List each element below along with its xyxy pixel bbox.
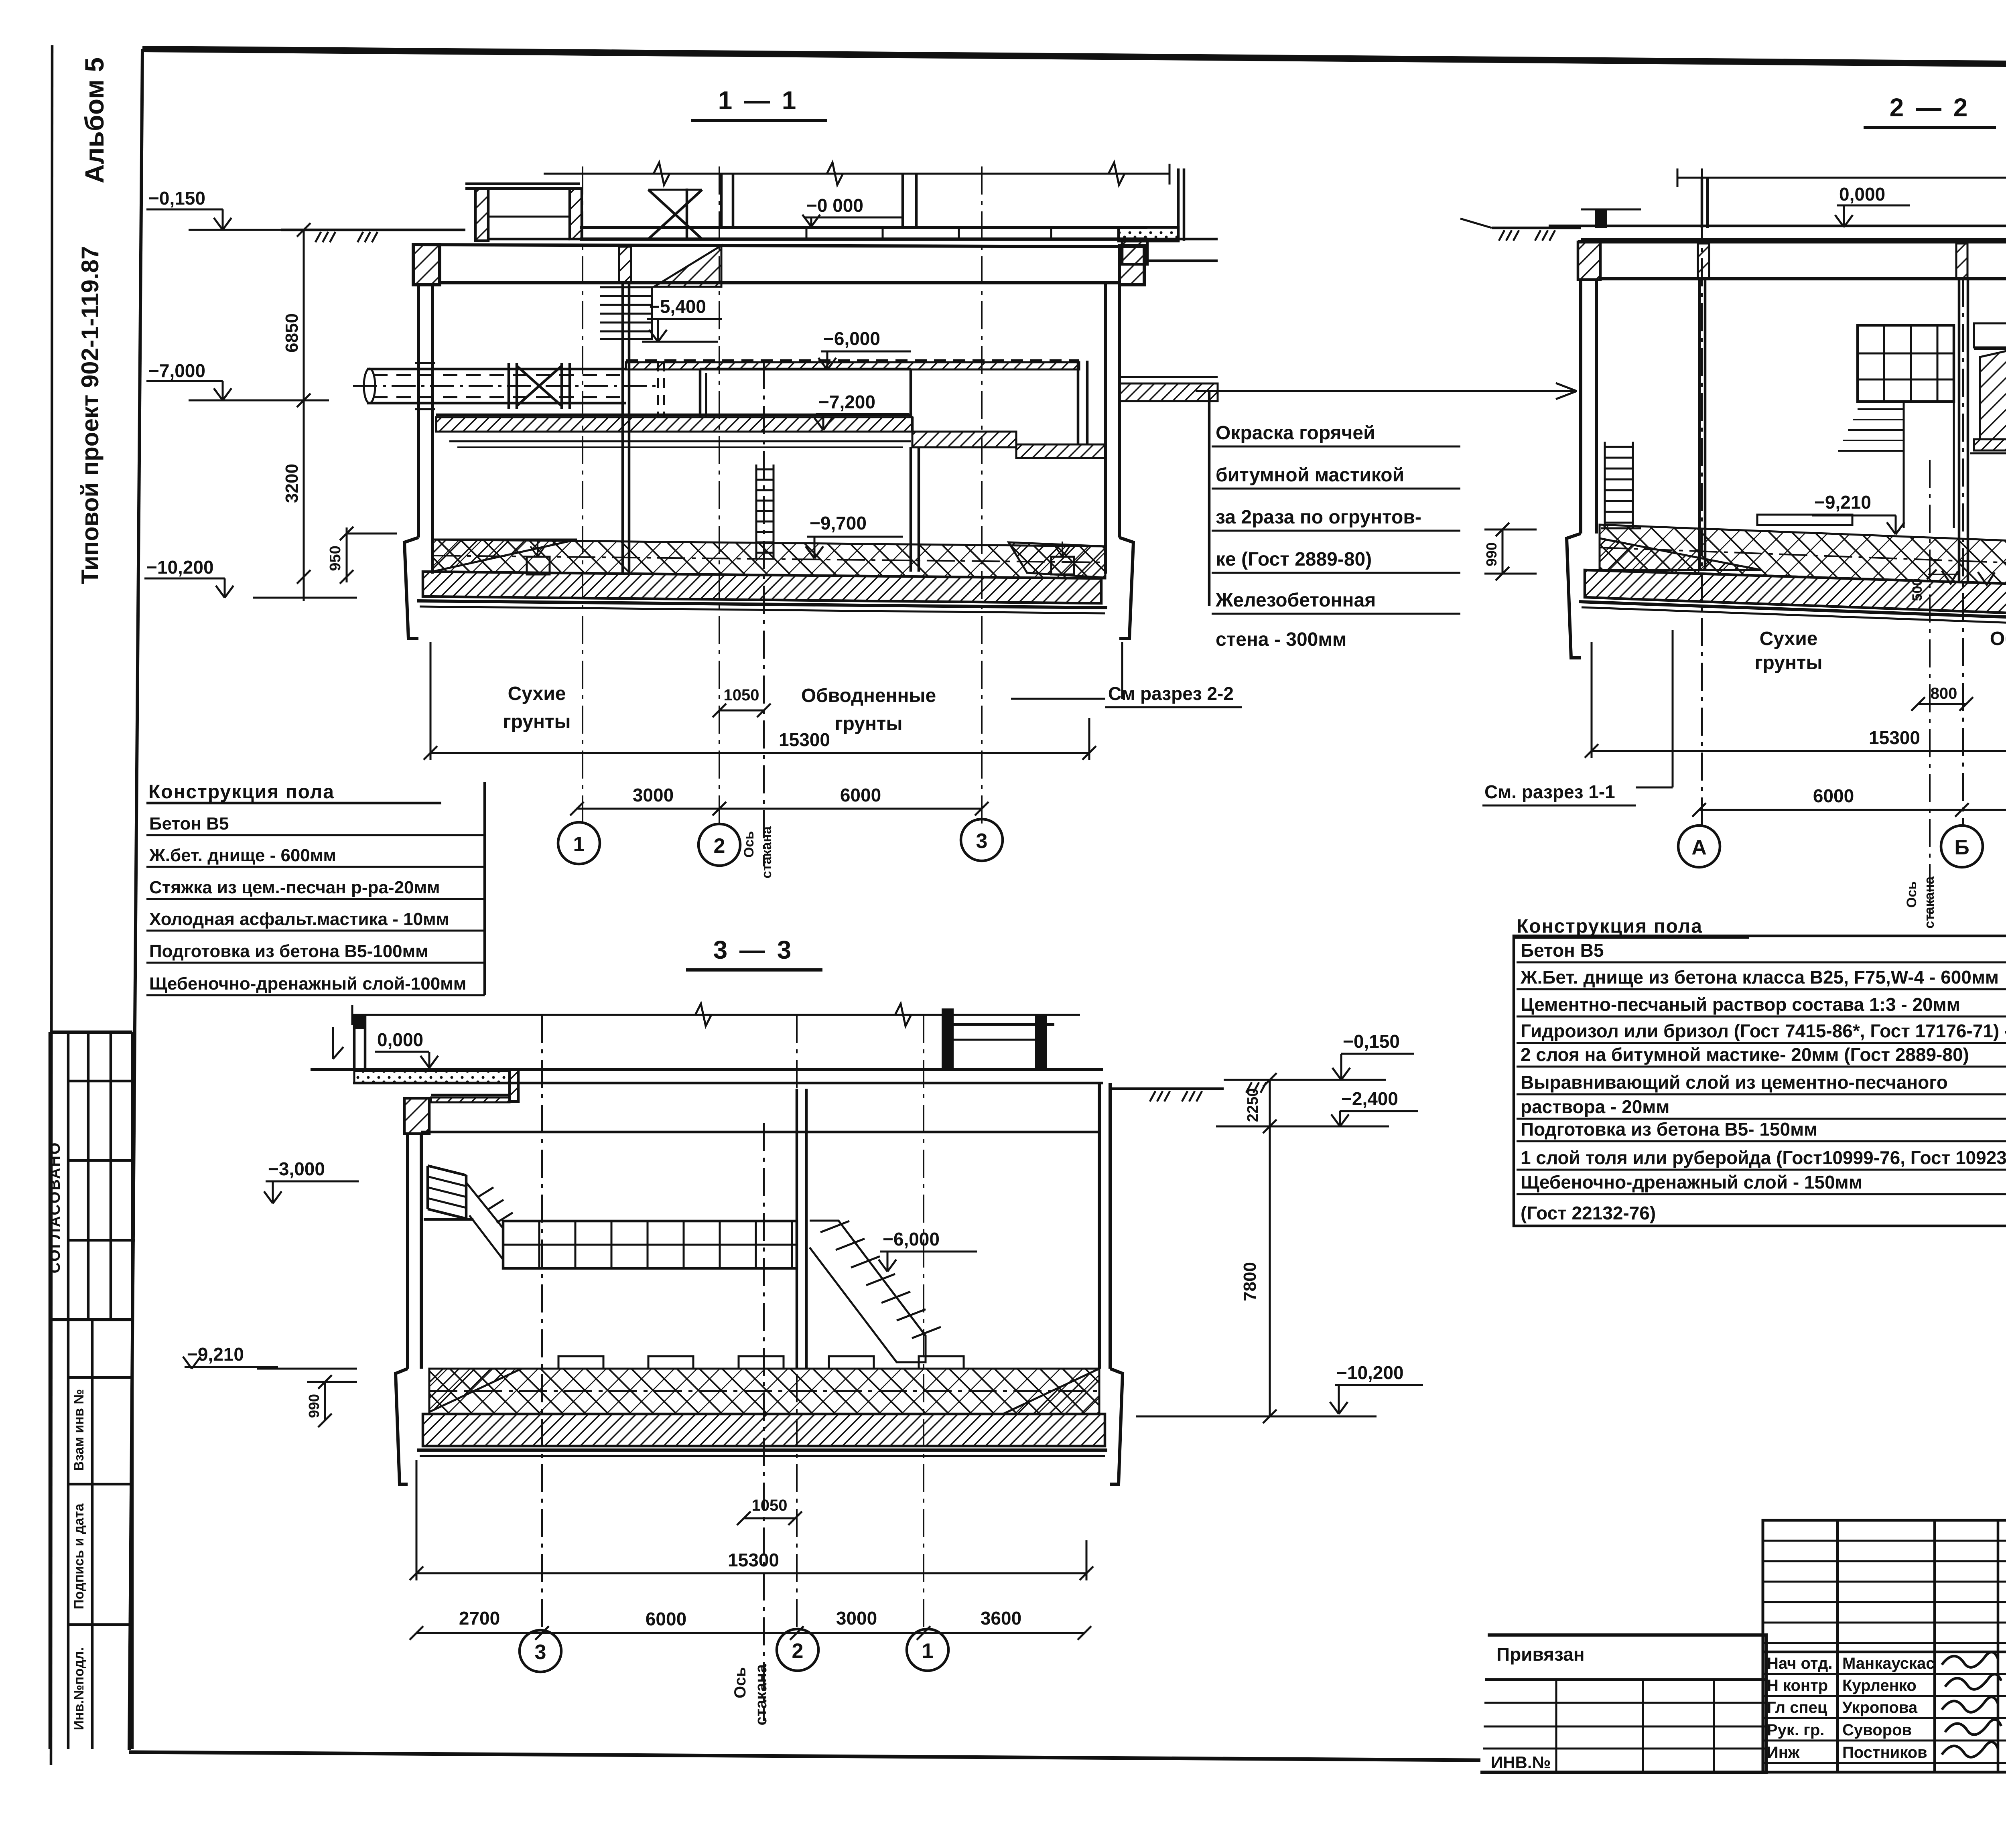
- svg-text:СОГЛАСОВАНО: СОГЛАСОВАНО: [47, 1142, 63, 1274]
- svg-text:битумной мастикой: битумной мастикой: [1216, 465, 1404, 486]
- svg-text:−0 000: −0 000: [806, 195, 863, 216]
- svg-text:Ось: Ось: [1904, 881, 1919, 908]
- svg-text:990: 990: [1483, 542, 1500, 566]
- svg-text:стакана: стакана: [759, 826, 774, 878]
- section 2-2 dim line 6000 6000: [1699, 809, 2006, 811]
- svg-text:раствора - 20мм: раствора - 20мм: [1521, 1096, 1669, 1117]
- svg-text:Подготовка из бетона В5- 150мм: Подготовка из бетона В5- 150мм: [1521, 1119, 1817, 1140]
- svg-text:Холодная асфальт.мастика - 10м: Холодная асфальт.мастика - 10мм: [149, 909, 449, 929]
- section 1-1 intermediate floor slab: [436, 417, 912, 432]
- svg-text:грунты: грунты: [835, 713, 903, 734]
- svg-text:Конструкция пола: Конструкция пола: [1517, 916, 1703, 937]
- section 3-3 center wall: [796, 1089, 798, 1369]
- section 1-1 bottom slab: [423, 572, 1101, 603]
- section 1-1 roof entrance box: [465, 187, 580, 190]
- section 1-1 left outer wall: [417, 283, 420, 538]
- section 2-2 axis line cup 2: [1929, 460, 1931, 919]
- section 1-1 floor step right: [912, 432, 1016, 447]
- svg-text:Постников: Постников: [1842, 1744, 1927, 1761]
- svg-text:Щебеночно-дренажный слой - 150: Щебеночно-дренажный слой - 150мм: [1521, 1172, 1862, 1193]
- svg-text:Окраска горячей: Окраска горячей: [1216, 422, 1375, 444]
- svg-text:Привязан: Привязан: [1496, 1644, 1585, 1665]
- section 1-1 top slab band: [413, 245, 1147, 247]
- section 1-1 underfloor prep band: [432, 540, 1105, 578]
- section 1-1 portal X-brace: [686, 189, 688, 239]
- section 3-3 axis bubble 2: [777, 1629, 818, 1671]
- svg-text:ке (Гост 2889-80): ке (Гост 2889-80): [1216, 549, 1372, 570]
- svg-text:−0,150: −0,150: [1343, 1031, 1400, 1052]
- svg-text:2 — 2: 2 — 2: [1890, 93, 1970, 122]
- svg-text:Манкаускас: Манкаускас: [1842, 1655, 1935, 1672]
- svg-text:Стяжка из цем.-песчан р-ра-20м: Стяжка из цем.-песчан р-ра-20мм: [149, 878, 440, 897]
- svg-text:Бетон В5: Бетон В5: [149, 814, 229, 834]
- svg-text:3 — 3: 3 — 3: [713, 935, 794, 964]
- svg-text:−10,200: −10,200: [1336, 1362, 1404, 1383]
- svg-text:Суворов: Суворов: [1842, 1721, 1912, 1739]
- svg-text:−3,000: −3,000: [268, 1158, 325, 1179]
- svg-text:за 2раза по огрунтов-: за 2раза по огрунтов-: [1216, 507, 1421, 528]
- svg-text:2: 2: [714, 834, 725, 858]
- svg-text:Железобетонная: Железобетонная: [1215, 590, 1376, 611]
- svg-text:3200: 3200: [282, 464, 302, 503]
- section 1-1 right wall foot: [1119, 538, 1133, 639]
- svg-text:15300: 15300: [728, 1550, 779, 1570]
- svg-text:Ж.Бет. днище из бетона класса: Ж.Бет. днище из бетона класса В25, F75,W…: [1520, 967, 1999, 988]
- section 1-1 dim 1050: [719, 710, 764, 712]
- section 1-1 axis line cup: [763, 361, 765, 866]
- svg-text:Взам инв №: Взам инв №: [71, 1389, 87, 1471]
- svg-text:Ось: Ось: [741, 831, 757, 858]
- section 3-3 axis line 3: [541, 1015, 543, 1629]
- svg-text:−9,210: −9,210: [1814, 492, 1871, 513]
- svg-text:Альбом 5: Альбом 5: [79, 57, 109, 183]
- svg-text:1: 1: [573, 833, 585, 856]
- section 3-3 canopy step: [510, 1069, 518, 1101]
- section 2-2 top slab mid blocks: [1698, 243, 1709, 279]
- section 1-1 axis line 3: [981, 166, 983, 826]
- section 2-2 vertical dim 990 left: [1502, 529, 1504, 574]
- svg-text:Гл спец: Гл спец: [1767, 1699, 1827, 1716]
- section 2-2 small steps near rack: [1858, 408, 1904, 410]
- svg-text:1: 1: [922, 1639, 934, 1663]
- note block Окраска битумной мастикой: [1208, 391, 1211, 606]
- section 3-3 entry stair upper: [426, 1166, 429, 1209]
- title block: signature table: [1763, 1520, 2006, 1772]
- svg-text:800: 800: [1931, 685, 1957, 702]
- section 1-1 interior column right of duct: [1077, 361, 1080, 444]
- svg-text:−6,000: −6,000: [823, 328, 880, 349]
- svg-text:3: 3: [535, 1641, 546, 1664]
- svg-text:2: 2: [792, 1639, 804, 1663]
- sheet frame bottom border: [129, 1752, 1480, 1760]
- section 1-1 pump pedestal left: [527, 557, 550, 574]
- section 2-2 dim line 15300: [1592, 750, 2006, 752]
- svg-text:1 слой толя или руберойда (Гос: 1 слой толя или руберойда (Гост10999-76,…: [1521, 1147, 2006, 1168]
- svg-text:Щебеночно-дренажный слой-100мм: Щебеночно-дренажный слой-100мм: [149, 974, 466, 994]
- svg-text:стена - 300мм: стена - 300мм: [1216, 629, 1346, 650]
- section 2-2 cable rack grid: [1858, 325, 1954, 402]
- section 2-2 dim 800: [1918, 703, 1966, 705]
- svg-text:Инж: Инж: [1767, 1744, 1800, 1761]
- svg-text:500: 500: [1910, 578, 1925, 601]
- svg-text:6000: 6000: [1813, 785, 1854, 806]
- section 2-2 interior wall axis A: [1698, 279, 1701, 570]
- title block signature squiggles: [1942, 1652, 1998, 1667]
- svg-text:Гидроизол или бризол (Гост 741: Гидроизол или бризол (Гост 7415-86*, Гос…: [1521, 1020, 2006, 1041]
- section 3-3 dim 1050: [744, 1517, 795, 1519]
- section 1-1 top datum line with breaks: [544, 173, 1169, 175]
- svg-text:Б: Б: [1954, 836, 1969, 859]
- svg-text:Курленко: Курленко: [1842, 1677, 1917, 1694]
- section 1-1 underfloor prep layer left wedge: [432, 540, 577, 572]
- section 3-3 vertical dim 2250 7800: [1269, 1080, 1271, 1416]
- section 1-1 outside duct stub right: [1119, 383, 1218, 401]
- svg-text:−9,700: −9,700: [810, 513, 867, 534]
- section 3-3 right wall: [1098, 1083, 1101, 1369]
- svg-text:Конструкция пола: Конструкция пола: [148, 781, 335, 803]
- section 1-1 stair hatched triangle: [654, 245, 721, 287]
- section 2-2 prep left wedge: [1600, 538, 1761, 570]
- svg-text:−10,200: −10,200: [146, 557, 214, 578]
- svg-text:грунты: грунты: [1755, 652, 1823, 673]
- svg-text:6000: 6000: [840, 785, 881, 805]
- section 2-2 top slab left block: [1578, 242, 1600, 280]
- svg-text:0,000: 0,000: [377, 1029, 423, 1050]
- section 1-1 right outer wall: [1104, 283, 1107, 538]
- svg-text:3600: 3600: [981, 1608, 1021, 1629]
- section 1-1 pump pedestal right: [1051, 557, 1074, 574]
- svg-text:0,000: 0,000: [1839, 184, 1885, 205]
- svg-text:Выравнивающий слой из цементно: Выравнивающий слой из цементно-песчаного: [1521, 1072, 1948, 1093]
- svg-text:грунты: грунты: [503, 711, 571, 732]
- section 3-3 roof left upstand: [353, 1015, 356, 1069]
- svg-text:950: 950: [327, 546, 344, 571]
- section 1-1 upper staircase: [600, 287, 652, 339]
- section 1-1 axis line 2: [719, 166, 720, 826]
- section 2-2 pillar top line: [1974, 348, 2006, 350]
- svg-text:15300: 15300: [779, 729, 830, 750]
- svg-text:Обводненные: Обводненные: [801, 685, 936, 706]
- section 2-2 pump pillars: [1980, 349, 2006, 439]
- section 1-1 pipe wall sleeve: [415, 362, 435, 364]
- note leader line to section 2-2: [1196, 390, 1577, 392]
- svg-text:−0,150: −0,150: [148, 188, 205, 209]
- svg-text:Сухие: Сухие: [508, 683, 566, 704]
- svg-text:Сухие: Сухие: [1760, 628, 1818, 649]
- section 2-2 axis line A: [1701, 168, 1703, 826]
- svg-text:Подготовка из бетона В5-100мм: Подготовка из бетона В5-100мм: [149, 941, 428, 961]
- section 1-1 top slab mid hatched block: [619, 247, 631, 283]
- section 1-1 duct top hatched strip: [626, 362, 1079, 369]
- section 3-3 roof slab: [311, 1068, 1103, 1071]
- section 2-2 ground line left: [1492, 227, 1581, 229]
- section 1-1 vent walls above roof: [720, 174, 723, 227]
- section 3-3 right wall foot: [1110, 1369, 1123, 1484]
- section 2-2 top slab band: [1578, 240, 2006, 243]
- svg-text:стакана: стакана: [1922, 876, 1937, 929]
- svg-text:−9,210: −9,210: [187, 1344, 244, 1365]
- svg-text:−2,400: −2,400: [1341, 1088, 1398, 1109]
- section 1-1 axis bubble 3: [961, 819, 1003, 861]
- stamp column row lines upper: [68, 1080, 135, 1083]
- section 1-1 dim line 15300: [430, 752, 1089, 754]
- section 1-1 left wall foot: [404, 538, 418, 639]
- section 1-1 dashed verticals near stair: [657, 361, 659, 417]
- section 3-3 axis bubble 1: [907, 1629, 948, 1671]
- section 2-2 parapet left: [1595, 209, 1607, 228]
- section 2-2 left outer wall: [1579, 279, 1582, 534]
- section 2-2 vent walls above roof: [1701, 178, 1703, 228]
- svg-text:Подпись и дата: Подпись и дата: [71, 1503, 87, 1609]
- sheet far-left trim line: [51, 45, 52, 1765]
- svg-text:Ось: Ось: [731, 1667, 749, 1698]
- section 3-3 pump pads: [558, 1356, 603, 1369]
- svg-text:−7,000: −7,000: [148, 360, 205, 381]
- section 1-1 machine hall ladder: [755, 465, 757, 558]
- section 2-2 bottom slab: [1585, 570, 2006, 623]
- section 2-2 roof slab: [1549, 225, 2006, 227]
- svg-text:Рук. гр.: Рук. гр.: [1767, 1721, 1824, 1739]
- svg-text:990: 990: [306, 1394, 322, 1418]
- svg-text:−6,000: −6,000: [883, 1229, 940, 1250]
- section 1-1 ground line left: [281, 229, 465, 231]
- svg-text:стакана: стакана: [752, 1664, 770, 1726]
- section 1-1 axis bubble 1: [558, 822, 600, 864]
- section 3-3 underfloor prep band: [429, 1369, 1099, 1414]
- section 2-2 mezzanine floor slab: [1974, 439, 2006, 450]
- section 3-3 axis line 1: [923, 1015, 924, 1629]
- section 2-2 pump pad on floor: [1757, 515, 1852, 525]
- section 3-3 canopy pier: [404, 1098, 429, 1134]
- section 2-2 sump profiles: [1942, 571, 1958, 584]
- svg-text:2700: 2700: [459, 1608, 500, 1629]
- svg-text:Нач отд.: Нач отд.: [1767, 1655, 1832, 1672]
- section 1-1 suction pipe: [367, 368, 626, 371]
- svg-text:−7,200: −7,200: [818, 392, 875, 412]
- section 3-3 ceiling line: [421, 1131, 1099, 1134]
- svg-text:2250: 2250: [1245, 1088, 1261, 1122]
- section 3-3 ground right: [1112, 1087, 1224, 1090]
- section 1-1 axis line 1: [582, 166, 583, 826]
- svg-text:1 — 1: 1 — 1: [718, 86, 799, 115]
- section 1-1 top slab right hatched block: [1119, 245, 1144, 285]
- section 3-3 bottom slab: [423, 1414, 1105, 1446]
- svg-text:Инв.№подл.: Инв.№подл.: [71, 1647, 87, 1730]
- section 1-1 underfloor prep layer right wedge: [1009, 542, 1105, 578]
- section 1-1 axis bubble 2: [698, 824, 740, 866]
- section 2-2 underfloor prep band: [1600, 525, 2006, 591]
- section 1-1 vertical dim 6850-3200-950: [303, 230, 305, 601]
- section 2-2 axis bubble B: [1941, 826, 1983, 867]
- stamp column vertical dividers upper: [67, 1032, 70, 1749]
- section 3-3 left wall: [406, 1134, 409, 1369]
- section 1-1 ground slab right part: [580, 226, 1147, 229]
- stamp column outer box: [50, 1030, 132, 1034]
- section 1-1 interior wall right mid: [910, 447, 912, 572]
- section 3-3 dim line bays: [416, 1632, 1084, 1634]
- section 3-3 left wall foot: [396, 1369, 408, 1484]
- svg-text:Н контр: Н контр: [1767, 1677, 1828, 1694]
- svg-text:2 слоя на битумной мастике- 20: 2 слоя на битумной мастике- 20мм (Гост 2…: [1521, 1044, 1969, 1065]
- svg-text:Цементно-песчаный раствор сост: Цементно-песчаный раствор состава 1:3 - …: [1521, 994, 1960, 1015]
- section 1-1 dim line 3000 6000: [577, 808, 982, 810]
- svg-text:−5,400: −5,400: [649, 296, 706, 317]
- section 2-2 left ladder: [1604, 442, 1606, 528]
- section 3-3 walkway deck: [503, 1221, 797, 1268]
- svg-text:1050: 1050: [752, 1497, 788, 1514]
- section 1-1 lower ceiling line: [449, 440, 911, 442]
- section 3-3 roof railing right: [942, 1008, 954, 1069]
- section 2-2 beam row: [1974, 323, 2006, 347]
- section 1-1 top slab left hatched block: [413, 245, 440, 285]
- section 3-3 axis line cup 3: [763, 1123, 765, 1721]
- svg-text:См разрез 2-2: См разрез 2-2: [1108, 683, 1234, 704]
- svg-text:3: 3: [976, 830, 988, 853]
- section 2-2 top datum line with break: [1677, 177, 2006, 179]
- title block: privyazan table: [1480, 1635, 1766, 1772]
- svg-text:3000: 3000: [633, 785, 674, 805]
- svg-text:Бетон В5: Бетон В5: [1521, 940, 1604, 961]
- svg-text:6000: 6000: [646, 1609, 686, 1629]
- stamp column lower dividers: [91, 1320, 94, 1749]
- section 3-3 axis line 2: [796, 1015, 798, 1629]
- section 3-3 prep right wedge: [1003, 1369, 1099, 1414]
- svg-text:См. разрез 1-1: См. разрез 1-1: [1484, 781, 1615, 802]
- svg-text:Обводненные: Обводненные: [1990, 628, 2006, 649]
- sheet frame top border: [142, 49, 2006, 68]
- svg-text:Укропова: Укропова: [1842, 1699, 1918, 1716]
- section 1-1 pipe centerline: [353, 385, 658, 387]
- section 3-3 prep left wedge: [429, 1369, 522, 1412]
- section 3-3 axis bubble 3: [520, 1630, 561, 1672]
- svg-text:(Гост 22132-76): (Гост 22132-76): [1521, 1203, 1656, 1223]
- section 1-1 right entrance ledge: [1122, 241, 1147, 264]
- svg-text:Ж.бет. днище - 600мм: Ж.бет. днище - 600мм: [149, 846, 336, 865]
- svg-text:6850: 6850: [282, 313, 302, 353]
- section 3-3 dim line 15300: [416, 1572, 1086, 1574]
- section 3-3 top datum line with breaks: [352, 1014, 1080, 1016]
- svg-text:1050: 1050: [724, 686, 759, 704]
- section 1-1 roof panel joints: [806, 227, 808, 239]
- svg-text:ИНВ.№: ИНВ.№: [1491, 1753, 1551, 1772]
- svg-text:А: А: [1691, 836, 1707, 859]
- svg-text:3000: 3000: [836, 1608, 877, 1629]
- section 2-2 interior wall axis B: [1958, 279, 1961, 582]
- section 1-1 interior wall left of stairs: [621, 283, 624, 574]
- section 3-3 roof dotted strip: [354, 1071, 510, 1083]
- svg-text:7800: 7800: [1240, 1262, 1260, 1301]
- section 1-1 discharge duct: [700, 368, 911, 371]
- svg-text:Типовой проект 902-1-119.87: Типовой проект 902-1-119.87: [77, 246, 104, 584]
- svg-text:15300: 15300: [1869, 727, 1920, 748]
- section 3-3 diagonal stair: [810, 1221, 926, 1362]
- section 2-2 left wall foot: [1567, 534, 1581, 658]
- section 1-1 pipe valve: [508, 363, 510, 409]
- section 2-2 axis line B: [1962, 279, 1964, 826]
- section 3-3 vertical dim 990: [324, 1382, 326, 1420]
- section 3-3 entry stair lower flight: [466, 1183, 503, 1260]
- sheet frame left border: [129, 49, 142, 1750]
- section 2-2 axis bubble A: [1678, 826, 1720, 867]
